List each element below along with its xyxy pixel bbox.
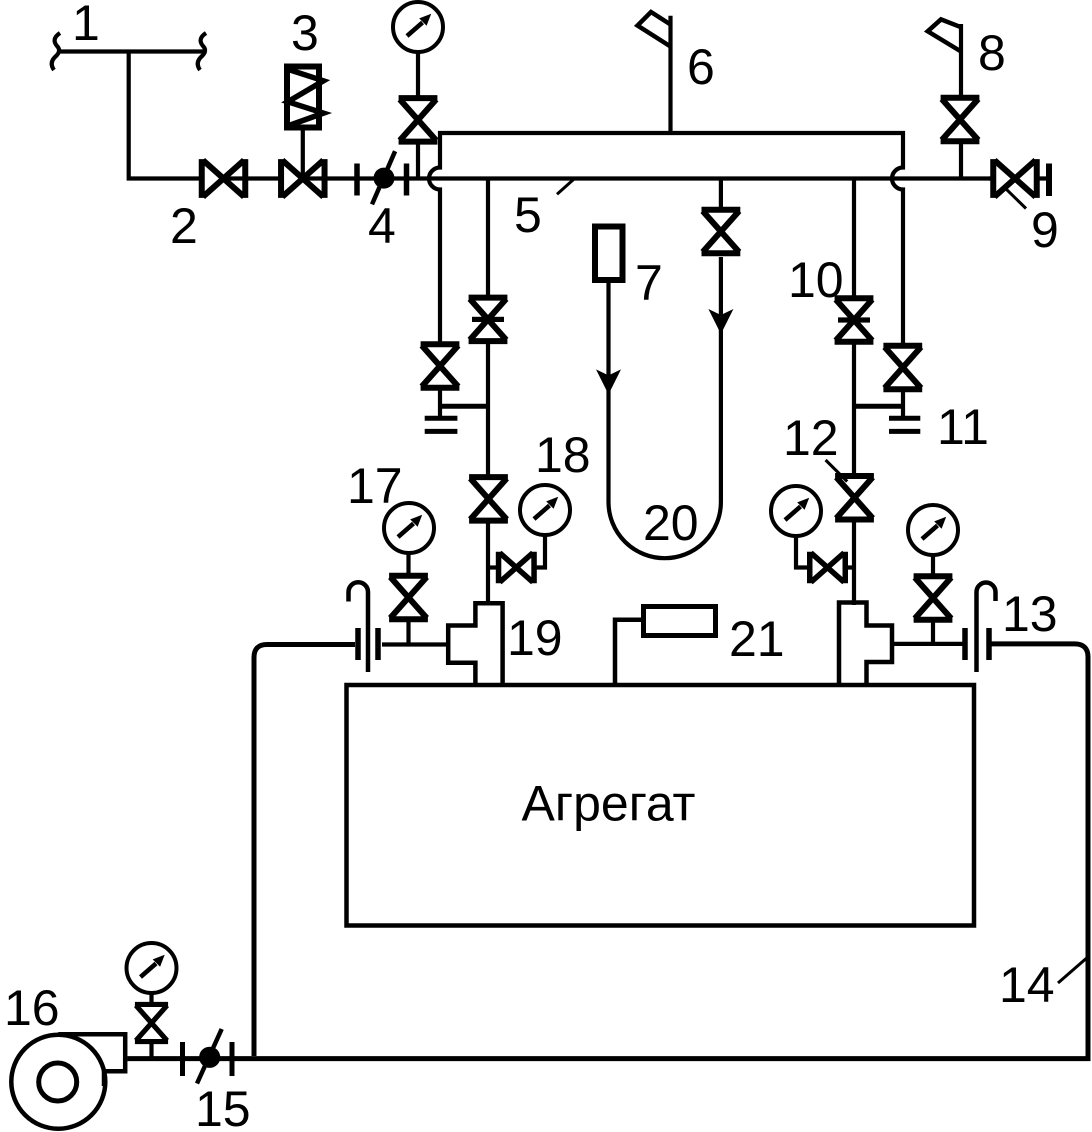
orifice 15 left flange bar — [180, 1042, 185, 1076]
wire: gauge 17 stem — [406, 552, 410, 576]
vent 6 flag — [638, 12, 671, 47]
left flexible joint flange bar A — [355, 628, 361, 660]
svg-text:18: 18 — [535, 427, 591, 483]
wire: stem of valve 17 — [406, 622, 410, 645]
wire: stem of valve 3 — [301, 127, 305, 179]
orifice 4 right flange bar — [404, 164, 410, 196]
wire: U-loop 20 from device 7 up to valve — [609, 257, 721, 558]
wire: pipe from right tee to flange 13 — [890, 642, 964, 646]
header 5 left edge with crossing hop — [429, 131, 440, 343]
valve on left header drop x=440 — [421, 344, 460, 388]
drain valve (small) — [499, 552, 535, 584]
svg-text:15: 15 — [195, 1081, 251, 1132]
svg-text:1: 1 — [72, 0, 100, 51]
vent 6 wire — [668, 16, 672, 133]
svg-text:6: 6 — [687, 39, 715, 95]
valve 11 on right header drop — [883, 346, 922, 390]
control valve 10 with bar — [835, 298, 874, 342]
svg-text:9: 9 — [1031, 202, 1059, 258]
blind cap after valve 9 — [1046, 164, 1052, 197]
drain connector to x=488 line — [440, 404, 488, 409]
control valve with bar (on x=488 line) — [469, 298, 508, 342]
svg-text:14: 14 — [999, 957, 1055, 1013]
wire: pipe from flange to tee 19 — [382, 642, 450, 646]
pump 16 hub — [39, 1063, 77, 1101]
valve 17 — [389, 576, 428, 620]
orifice 4 disc — [374, 168, 395, 189]
svg-text:8: 8 — [978, 25, 1006, 81]
valve 2 — [202, 159, 246, 198]
drain bar 2 — [425, 429, 458, 434]
drain bar 1 of 11 — [889, 416, 920, 421]
leader line of label 14 — [1058, 956, 1089, 983]
left flexible joint flange bar B — [375, 628, 381, 660]
device 7 (sensor pocket) — [595, 227, 623, 281]
pressure gauge at pump — [127, 943, 177, 993]
svg-text:7: 7 — [635, 255, 663, 311]
wire: gauge branch at x=418 — [416, 53, 420, 179]
flexible joint 13 hook — [977, 583, 996, 673]
orifice 4 handle — [372, 151, 395, 204]
orifice 15 disc — [199, 1047, 220, 1068]
wire: right drop line x=854 from header to right tee — [852, 179, 856, 606]
lower valve on x=488 line — [469, 477, 508, 521]
valve below gauge near 13 — [914, 576, 953, 620]
header 5 right edge with crossing hop — [892, 131, 903, 347]
leader line of label 5 — [557, 180, 574, 195]
svg-text:5: 5 — [514, 187, 542, 243]
device 21 box — [644, 607, 716, 636]
wire: elbow from drain valve to gauge 18 — [534, 535, 545, 568]
orifice 15 right flange bar — [230, 1042, 235, 1076]
left flexible joint hook — [349, 582, 369, 672]
orifice 4 left flange bar — [354, 164, 360, 196]
drain bar 2 of 11 — [889, 429, 920, 434]
svg-text:Агрегат: Агрегат — [522, 776, 696, 832]
pressure gauge 18 — [520, 485, 570, 535]
valve 9 — [993, 159, 1037, 198]
pressure gauge near 13 — [908, 505, 958, 555]
leader line of label 9 — [1003, 186, 1026, 209]
drain valve (small) near 12 — [810, 552, 846, 584]
drain bar 1 — [425, 416, 458, 421]
svg-text:2: 2 — [170, 198, 198, 254]
wire: valve to discharge pipe — [149, 1042, 153, 1058]
valve 3 (solenoid valve) — [281, 159, 325, 198]
left circulation pipe of loop 14 — [254, 645, 355, 1057]
svg-text:10: 10 — [788, 252, 844, 308]
svg-text:4: 4 — [368, 198, 396, 254]
wire: stub to valve 9 — [989, 176, 1046, 180]
wire: riser from header to loop valve — [719, 179, 723, 213]
pump 16 volute — [11, 1035, 105, 1129]
vent 8 flag — [928, 19, 961, 51]
wire: valve 3 to orifice 4 — [301, 176, 410, 180]
coil zigzag of valve 3 — [288, 70, 324, 126]
wire: main distribution pipe (bottom line of header 5) — [409, 176, 991, 180]
solenoid coil box of valve 3 — [287, 67, 319, 128]
wire: valve 2 to valve 3 — [222, 176, 304, 180]
break mark right end of pipe 1 — [198, 33, 206, 70]
pump 16 outlet duct — [58, 1034, 125, 1086]
valve at pump gauge — [135, 1004, 168, 1041]
wire: elbow from gauge to drain valve near 12 — [796, 535, 854, 568]
svg-text:21: 21 — [729, 611, 785, 667]
pressure gauge 17 — [384, 503, 434, 553]
right tee fitting — [839, 603, 892, 685]
tee fitting 19 — [448, 603, 502, 684]
drain stem below valve — [438, 389, 442, 416]
pressure gauge left of 12 — [771, 486, 821, 536]
header 5 top line — [438, 131, 905, 135]
valve 8 — [941, 98, 980, 142]
svg-text:17: 17 — [347, 458, 403, 514]
wire: gauge stem at pump — [149, 994, 153, 1005]
orifice 15 handle — [197, 1029, 222, 1084]
machine unit box — [347, 685, 975, 926]
wire: supply pipe 1 — [57, 49, 203, 53]
drain stem below valve 11 — [901, 389, 905, 416]
valve 12 — [835, 476, 874, 520]
svg-text:11: 11 — [937, 399, 989, 455]
pressure gauge on inlet — [393, 2, 443, 52]
wire: drop from pipe 1 to valve 2 — [129, 52, 225, 179]
drain connector to x=854 line — [854, 404, 903, 409]
svg-text:3: 3 — [291, 5, 319, 61]
flow arrow on left leg of loop — [596, 369, 621, 394]
valve on loop riser — [702, 210, 741, 254]
wire: branch to drain valve 18 — [488, 565, 500, 569]
right circulation pipe of loop 14 — [991, 644, 1088, 1058]
svg-text:13: 13 — [1002, 586, 1058, 642]
svg-text:16: 16 — [4, 980, 60, 1036]
svg-text:19: 19 — [507, 610, 563, 666]
bracket of device 21 — [615, 620, 641, 684]
break mark left end of pipe 1 — [52, 33, 60, 70]
flexible joint 13 flange bar A — [962, 628, 968, 660]
bottom circulation pipe of loop 14 — [128, 1056, 1091, 1061]
svg-text:12: 12 — [783, 410, 839, 466]
flow arrow on right leg of loop — [708, 309, 733, 334]
wire: gauge stem near 13 — [931, 555, 935, 577]
vent 8 wire — [959, 24, 963, 179]
leader line of label 12 — [826, 460, 848, 482]
wire: left drop line x=488 from header to tee 19 — [486, 179, 490, 606]
wire: stem of valve near 13 — [931, 622, 935, 644]
svg-text:20: 20 — [643, 495, 699, 551]
valve below gauge (header inlet) — [399, 98, 438, 141]
flexible joint 13 flange bar B — [986, 628, 992, 660]
